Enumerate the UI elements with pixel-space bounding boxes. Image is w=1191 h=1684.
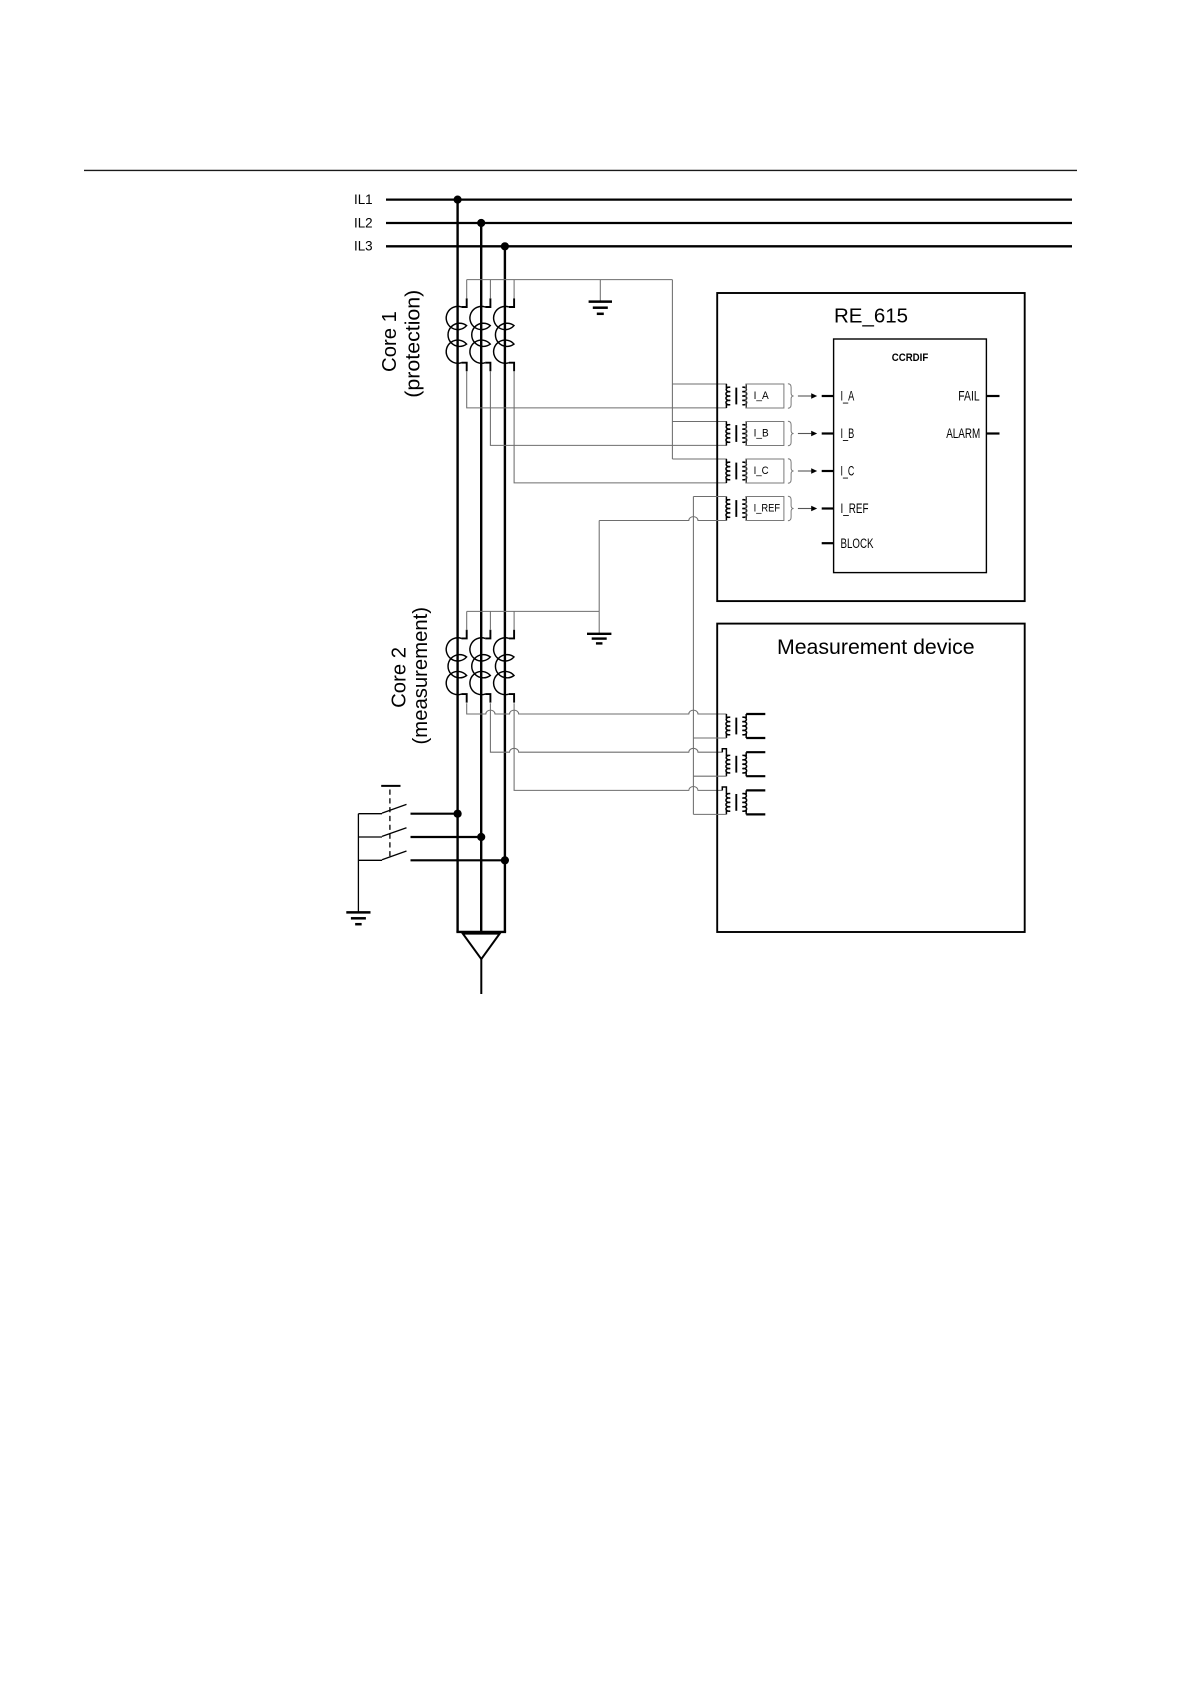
wire I_REF top lead xyxy=(693,496,727,498)
earthing switch linkage dashed xyxy=(389,790,391,857)
wire measurement transformer 2 return xyxy=(693,775,726,777)
bus IL2 xyxy=(386,222,1072,224)
wire CT Core2 L3 top lead xyxy=(513,611,515,630)
earthing switch pole L1 xyxy=(358,813,382,815)
input transformer I_REF xyxy=(726,497,730,521)
svg-text:Core 2: Core 2 xyxy=(389,647,411,708)
svg-text:I_A: I_A xyxy=(754,390,770,402)
wire I_REF bottom lead xyxy=(599,517,727,521)
ground Core1 star point xyxy=(599,280,601,302)
pin stub BLOCK xyxy=(822,542,834,544)
wire Core2 star bus xyxy=(467,610,600,612)
wire measurement return vertical xyxy=(692,497,694,815)
wire CT Core1 L3 phase lead xyxy=(514,371,727,483)
feeder conductor L1 xyxy=(456,200,458,932)
ground earthing switch xyxy=(346,911,370,914)
pin stub FAIL xyxy=(986,395,999,397)
RE_615 enclosure box xyxy=(717,293,1024,601)
junction L3 tap xyxy=(501,242,509,250)
svg-text:IL2: IL2 xyxy=(354,215,373,230)
CT Core1 L3 secondary winding xyxy=(509,298,514,307)
feeder conductor L3 xyxy=(504,246,506,932)
ground Core2 star point xyxy=(598,611,600,633)
Measurement device box xyxy=(717,624,1024,932)
wire CT Core1 L2 phase lead xyxy=(490,371,726,445)
wire CT Core1 L2 top lead xyxy=(489,280,491,299)
wire earthing switch common xyxy=(357,814,359,912)
svg-text:(measurement): (measurement) xyxy=(410,607,432,745)
svg-text:IL1: IL1 xyxy=(354,192,373,207)
cable termination triangle xyxy=(463,934,500,960)
svg-text:ALARM: ALARM xyxy=(946,426,980,441)
input transformer I_C xyxy=(726,459,730,483)
function block CCRDIF xyxy=(834,339,987,573)
measurement transformer 1 xyxy=(726,714,730,738)
wire measurement transformer 1 return xyxy=(693,737,726,739)
wire CT Core1 L3 top lead xyxy=(513,280,515,299)
measurement transformer 3 xyxy=(722,787,730,814)
wire CT Core1 L1 top lead xyxy=(466,280,468,299)
measurement transformer 2 xyxy=(722,749,730,776)
earthing switch linkage bar xyxy=(381,785,400,787)
wire CT Core2 L2 top lead xyxy=(489,611,491,630)
wire I_REF to Core2 star xyxy=(598,521,600,612)
CT Core2 L2 secondary winding xyxy=(485,630,490,639)
CT Core1 L1 secondary winding xyxy=(462,298,467,307)
svg-text:FAIL: FAIL xyxy=(958,389,980,404)
svg-text:Core 1: Core 1 xyxy=(379,311,401,372)
svg-text:I_B: I_B xyxy=(754,427,769,439)
junction L2 tap xyxy=(477,219,485,227)
earthing switch pole L3 xyxy=(358,859,382,861)
wire CT Core2 L1 top lead xyxy=(466,611,468,630)
page top rule xyxy=(84,169,1077,171)
CT Core2 L1 secondary winding xyxy=(462,630,467,639)
cable tail xyxy=(480,959,482,994)
svg-text:I_REF: I_REF xyxy=(841,501,869,516)
svg-text:I_B: I_B xyxy=(841,426,855,441)
svg-text:I_C: I_C xyxy=(754,465,769,477)
CT Core1 L2 secondary winding xyxy=(485,298,490,307)
CT Core2 L3 secondary winding xyxy=(509,630,514,639)
feeder end bar xyxy=(456,931,506,933)
junction switch L2 xyxy=(477,833,485,841)
earthing switch pole L2 xyxy=(358,836,382,838)
junction switch L3 xyxy=(501,856,509,864)
bus IL1 xyxy=(386,198,1072,200)
wire star bus to relay inputs xyxy=(671,280,673,459)
input transformer I_A xyxy=(726,384,730,408)
wire Core2 L3 phase lead xyxy=(514,703,722,790)
svg-text:(protection): (protection) xyxy=(403,290,425,398)
svg-text:I_REF: I_REF xyxy=(754,502,781,514)
junction switch L1 xyxy=(454,810,462,818)
feeder conductor L2 xyxy=(480,223,482,932)
wire Core2 L1 phase lead xyxy=(467,703,727,714)
wire Core2 L2 phase lead xyxy=(490,703,722,752)
bus IL3 xyxy=(386,245,1072,247)
wire CT Core1 L1 phase lead xyxy=(467,371,727,408)
pin stub ALARM xyxy=(986,432,999,434)
svg-text:I_A: I_A xyxy=(841,389,855,404)
junction L1 tap xyxy=(454,196,462,204)
svg-text:BLOCK: BLOCK xyxy=(841,536,874,551)
svg-text:I_C: I_C xyxy=(841,464,855,479)
input transformer I_B xyxy=(726,422,730,446)
svg-text:IL3: IL3 xyxy=(354,239,373,254)
svg-text:CCRDIF: CCRDIF xyxy=(892,352,929,364)
wire measurement transformer 3 return xyxy=(693,813,726,815)
svg-text:RE_615: RE_615 xyxy=(834,304,908,327)
svg-text:Measurement device: Measurement device xyxy=(777,635,975,659)
wire Core1 star bus xyxy=(467,279,673,281)
